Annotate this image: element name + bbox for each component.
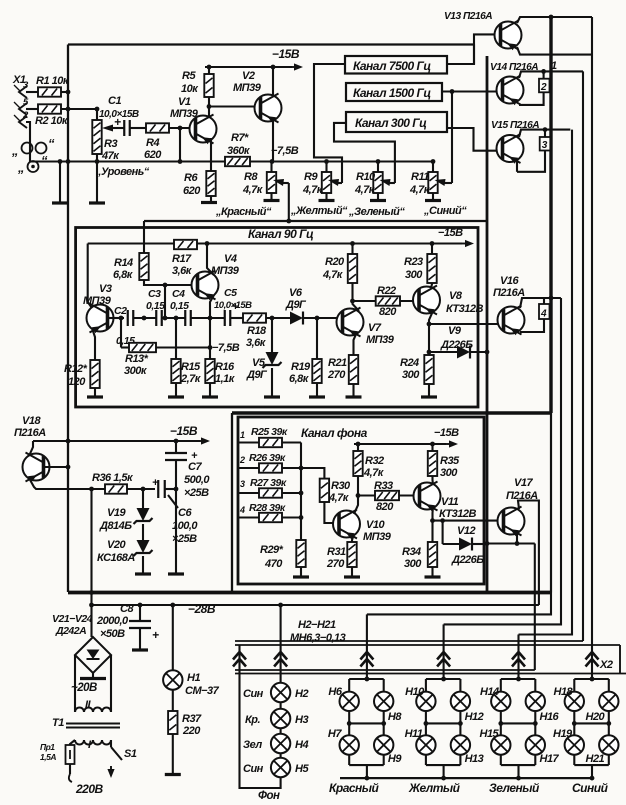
wire fon return loop [240,645,281,788]
wire R15 ground [175,383,177,396]
svg-text:Н4: Н4 [295,739,308,751]
svg-text:V21−V24: V21−V24 [52,613,93,625]
pin 4 box [543,298,545,304]
ground [168,395,184,398]
svg-text:V2: V2 [242,70,255,82]
svg-text:V3: V3 [99,283,112,295]
transistor V7 [337,308,364,338]
connector chevron Желтый [437,652,450,660]
-28V rail [92,604,539,606]
svg-text:Пр1: Пр1 [40,742,55,752]
lamp Н18 [565,692,584,711]
wire C7 down to ground [175,460,177,573]
wire R24 ground [428,384,430,396]
ground [264,395,280,398]
svg-text:620: 620 [144,149,162,161]
svg-text:МП39: МП39 [170,108,199,120]
connector chevron Зеленый [512,652,525,660]
svg-text:П216А: П216А [493,287,525,299]
svg-text:−15В: −15В [170,424,198,438]
wire pin2 to V14 collector [519,92,544,105]
wire left rail x68 [67,45,69,593]
resistor R1 [38,87,61,96]
lamp H2 [271,683,290,702]
svg-text:1: 1 [240,430,245,440]
wire R14 to V4 base [144,280,198,285]
wire -28V branch y543.5 [487,542,535,544]
lamp Н14 [491,692,510,711]
resistor R4 [146,123,169,132]
wire V11 emitter [431,506,434,544]
wire R4 to V1 base [169,127,196,129]
svg-text:300к: 300к [124,365,148,377]
resistor R31 [347,542,356,567]
capacitor C8 [139,605,141,620]
svg-text:V13 П216А: V13 П216А [444,11,492,22]
svg-text:Н17: Н17 [540,753,560,765]
wire R29 ground [300,567,302,576]
wire V8 emitter [429,311,433,356]
svg-text:V4: V4 [224,253,237,265]
ground [168,572,184,575]
svg-text:47к: 47к [101,150,120,162]
wire R10 wiper to channel 300 input [334,123,395,183]
svg-text:−15В: −15В [438,227,463,239]
svg-text:R35: R35 [440,455,460,467]
wire V17 emitter to -28V rail [518,501,539,606]
wire bridge to ground [92,673,94,677]
wire vertical x232 [231,413,233,592]
transistor V18 mirrored [23,453,50,483]
wire V1 base node down to bus [179,128,181,162]
resistor R34 [428,542,437,567]
svg-text:Н1: Н1 [187,672,200,684]
svg-text:820: 820 [379,306,397,318]
svg-text:Кр.: Кр. [245,714,260,726]
svg-text:R5: R5 [182,70,196,82]
wire right vertical x487 [486,56,489,593]
svg-text:Красный: Красный [329,781,380,795]
wire V11 collector [431,476,434,485]
R11 wiper arrow [444,182,453,184]
svg-text:Н20: Н20 [586,711,606,723]
capacitor C6 [157,480,159,498]
connector chevron fon right [274,652,287,660]
svg-text:С8: С8 [120,603,134,615]
wire C2 to C3 [134,317,156,319]
block Канал 300 Гц [346,112,447,132]
bus wire y161.5 right [250,160,433,162]
transistor V15 [497,134,524,164]
resistor R14 series input [139,253,148,280]
switch S1 [110,740,112,747]
lamp Н7 [340,735,359,754]
svg-text:R25 39к: R25 39к [251,426,288,438]
wire V18 emitter node down to -28V rail [90,489,92,637]
svg-text:С2: С2 [114,305,127,317]
svg-text:“: “ [48,136,55,151]
svg-text:Н11: Н11 [405,728,423,740]
transistor V2 [255,94,282,124]
wire C5 to R18 [231,317,243,319]
connector chevron Красный [360,652,373,660]
svg-text:4: 4 [239,505,245,515]
svg-text:R2 10к: R2 10к [35,115,69,127]
capacitor C2 [127,310,129,326]
wire bridge AC left [74,655,76,712]
svg-text:R17: R17 [172,253,192,265]
wire Желтый top node [426,678,461,680]
svg-text:Н8: Н8 [388,711,402,723]
wire V20 ground [142,556,144,573]
wire V3 collector up to rail [88,244,92,309]
lamp Н20 [599,692,618,711]
svg-text:Канал 7500 Гц: Канал 7500 Гц [353,59,431,73]
R8 wiper arrow [282,182,289,184]
svg-text:R14: R14 [114,257,133,269]
lamp Н12 [451,692,470,711]
wire summing node [300,443,302,541]
ground [346,395,362,398]
wire fuse to mains [69,764,71,774]
svg-text:R16: R16 [215,361,235,373]
common lamp return rail [340,777,592,779]
R9 wiper arrow [337,182,342,184]
svg-text:R33: R33 [374,480,393,492]
svg-text:×50В: ×50В [100,628,125,640]
resistor R33 [358,494,375,496]
svg-text:R11: R11 [411,171,429,183]
wire R11 wiper to channel 1500 output wire [451,92,453,184]
svg-text:300: 300 [402,369,420,381]
ground [201,201,217,204]
svg-text:Канал 90 Гц: Канал 90 Гц [248,227,314,241]
wire Зеленый feed [517,635,519,680]
svg-text:„Желтый“: „Желтый“ [290,205,348,217]
wire Красный top node [349,678,384,680]
wire V11 emitter to V17 base [433,520,505,522]
lamp Н9 [374,735,393,754]
svg-text:1,1к: 1,1к [215,373,236,385]
wire C4 to C5 [191,317,224,319]
resistor R20 [351,244,353,255]
svg-text:„Синий“: „Синий“ [423,205,467,217]
svg-text:V9: V9 [448,325,462,337]
wire R8 wiper to channel 90 input [288,183,290,221]
svg-text:220: 220 [182,725,201,737]
svg-text:Н12: Н12 [465,711,484,723]
svg-text:R13*: R13* [125,353,149,365]
wire base node riser to C3-C4 [164,285,166,318]
svg-text:V5: V5 [252,357,266,369]
resistor R19 [312,359,321,383]
svg-text:R15: R15 [181,361,201,373]
microphone input icon [28,161,39,172]
svg-text:П216А: П216А [14,427,46,439]
ground [89,201,105,204]
svg-text:300: 300 [440,467,458,479]
wire output rail x551 lower [550,413,552,593]
wire pin3 to V15 collector [517,151,545,172]
svg-text:V7: V7 [368,322,382,334]
transistor V14 [497,76,524,106]
ground [52,201,68,204]
svg-text:Д9Г: Д9Г [246,369,268,381]
svg-text:КТ312В: КТ312В [439,508,476,520]
-15V rail top [205,66,292,68]
svg-text:270: 270 [326,558,345,570]
block Канал 7500 Гц [345,56,447,74]
wire box 300 output to V15 base [447,128,503,151]
wire bridge AC right [110,655,112,712]
svg-text:Н14: Н14 [480,686,499,698]
svg-text:С5: С5 [224,287,237,299]
svg-text:R27 39к: R27 39к [250,477,287,489]
svg-text:1: 1 [551,60,557,72]
wire V18 emitter [29,478,105,489]
svg-text:3,6к: 3,6к [246,337,267,349]
resistor R32 [353,451,362,476]
capacitor C3 [155,310,157,326]
svg-text:0,15: 0,15 [146,300,165,312]
resistor R13 feedback [120,318,122,348]
fuse [70,740,75,745]
svg-text:V12: V12 [457,525,475,537]
wire fon output down to rail B1 [534,544,536,671]
wire R36 to C6 [127,488,155,490]
svg-text:„Уровень“: „Уровень“ [95,166,150,178]
wire R18 to V6 [266,317,290,319]
svg-text:360к: 360к [227,145,251,157]
svg-text:2: 2 [239,455,245,465]
block Канал 1500 Гц [346,83,442,101]
R3 wiper arrow [112,127,125,129]
resistor R16 [205,359,214,383]
wire output 1 down to bus A1 [582,71,584,641]
svg-text:+: + [152,628,159,642]
lamp Н13 [451,735,470,754]
wire V2 collector to -15V rail [272,67,274,96]
svg-text:R12*: R12* [64,363,88,375]
svg-text:V10: V10 [366,519,385,531]
svg-text:620: 620 [183,185,201,197]
potentiometer R10 [377,162,379,173]
ground [87,395,103,398]
svg-text:„Красный“: „Красный“ [215,206,272,218]
svg-text:„Зеленый“: „Зеленый“ [348,206,405,218]
svg-text:Н5: Н5 [295,763,309,775]
lamp Н11 [416,735,435,754]
svg-text:СМ−37: СМ−37 [185,685,220,697]
wire V3 emitter to R12 [92,328,95,360]
wire V13 collector [517,47,592,55]
svg-text:R7*: R7* [231,132,249,144]
svg-text:6,8к: 6,8к [113,269,134,281]
ground [344,575,360,578]
transistor V16 [498,306,525,336]
svg-text:КТ312В: КТ312В [446,303,483,315]
rail right of R17 [197,242,462,244]
bus rail B2 [235,673,626,675]
resistor R6 [206,171,215,196]
resistor R5 [208,67,210,74]
transformer core [66,723,120,725]
wire R37 ground [172,734,174,773]
svg-text:2,7к: 2,7к [180,373,202,385]
svg-text:V19: V19 [107,507,126,519]
wire Синий top node [574,678,609,680]
svg-text:4,7к: 4,7к [409,184,431,196]
bus wire y161.5 left [30,160,225,162]
wire H1 to R37 [172,690,174,711]
svg-text:V1: V1 [178,96,191,108]
resistor R24 [424,355,433,384]
transistor V11 [414,482,441,512]
lamp H3 [280,702,282,709]
diode V12 [459,538,472,551]
svg-text:−15В: −15В [272,47,300,61]
svg-text:Д814Б: Д814Б [99,520,132,532]
wire V7 collector [353,301,360,311]
wire R12 ground [94,388,96,396]
wire Синий feed [591,678,593,680]
wire V12 branch [442,521,444,544]
ground [165,773,181,776]
svg-text:R32: R32 [365,455,384,467]
-15V rail in channel 90 [88,242,174,244]
wire V4 collector to rail [207,244,214,276]
connector chevron Синий [586,652,599,660]
svg-text:Т1: Т1 [52,717,64,729]
transistor V1 [190,115,217,145]
transistor V3 mirrored [87,304,114,334]
wire C1 to R4 [130,127,146,129]
wire Желтый mid rail [426,722,461,724]
svg-text:R3: R3 [104,138,117,150]
pin 2 box [543,71,545,78]
ground [135,572,151,575]
svg-text:„: „ [17,160,24,175]
potentiometer R9 [325,162,327,173]
capacitor C5 [224,310,226,326]
wire red feed from thick bus [367,593,551,615]
svg-text:V18: V18 [22,415,41,427]
svg-text:Зеленый: Зеленый [489,781,540,795]
svg-text:МП39: МП39 [233,82,262,94]
svg-text:Н9: Н9 [388,753,402,765]
svg-text:2: 2 [540,82,547,93]
wire R33 to V11 base [399,494,420,496]
pin 3 box [544,130,546,137]
wire Синий mid rail [574,722,609,724]
bus rail A1 [235,640,583,642]
capacitor C1 [123,120,125,136]
svg-text:Н6: Н6 [328,686,342,698]
wire fon feed down [280,605,282,683]
wire thick bus y413 [232,411,551,414]
svg-text:3,6к: 3,6к [172,265,193,277]
wire input riser to R14 [143,221,145,253]
svg-text:R37: R37 [182,713,202,725]
svg-text:Синий: Синий [572,781,609,795]
wire C6 to C7 branch [165,488,176,490]
wire V13 emitter rail [517,17,592,23]
svg-text:1,5А: 1,5А [40,752,56,762]
svg-text:R30: R30 [331,480,351,492]
svg-text:220В: 220В [75,782,104,796]
svg-text:С4: С4 [172,288,185,300]
svg-text:R22: R22 [377,285,396,297]
wire V9 to bus [470,351,487,353]
svg-text:Канал фона: Канал фона [301,426,368,440]
svg-text:Канал 1500 Гц: Канал 1500 Гц [353,86,431,100]
resistor R35 [428,451,437,476]
svg-text:R19: R19 [291,361,311,373]
wire R2 to R3 top [61,108,97,110]
wire rail x592 down to blue lamps [591,17,593,679]
svg-text:Н13: Н13 [465,753,484,765]
lamp Н21 [599,735,618,754]
wire V16 emitter output 4 [520,298,561,308]
wire input node down [143,317,145,319]
wire V10 emitter to R31 [352,534,354,542]
potentiometer R11 [432,162,434,173]
resistor R21 [349,355,358,384]
transformer T1 primary I [75,740,111,745]
svg-text:V16: V16 [500,275,519,287]
block Канал фона frame [238,417,484,584]
svg-text:300: 300 [405,269,423,281]
svg-text:R18: R18 [247,325,267,337]
lamp Н8 [374,692,393,711]
svg-text:0,15: 0,15 [170,300,189,312]
svg-text:10к: 10к [181,83,199,95]
transistor V13 [495,21,522,51]
lamp H1 [172,605,174,670]
wire R22 to V8 base [400,300,419,302]
svg-text:Зел: Зел [243,739,262,751]
zener V20 [142,524,144,540]
svg-text:Н16: Н16 [540,711,560,723]
svg-text:R4: R4 [146,137,159,149]
svg-text:Н15: Н15 [480,728,500,740]
resistor R37 [168,711,177,734]
svg-text:V6: V6 [289,287,303,299]
svg-text:R31: R31 [327,546,346,558]
wire R6 to ground [210,196,212,202]
svg-text:С3: С3 [148,288,161,300]
transistor V17 [498,507,525,537]
potentiometer R8 [270,162,272,173]
svg-text:Д9Г: Д9Г [285,299,307,311]
wire R1 to rail [61,91,68,93]
resistor R29 [296,540,305,567]
wire R19 ground [316,383,318,396]
svg-text:V20: V20 [107,539,126,551]
wire R34 ground [431,567,433,576]
transformer T1 secondary II [75,708,111,713]
svg-text:4,7к: 4,7к [302,184,324,196]
lamp Н6 [340,692,359,711]
ground [309,395,325,398]
svg-text:V11: V11 [441,496,459,508]
wire summing to R30 [301,468,324,479]
svg-text:R9: R9 [304,171,318,183]
resistor R12 [90,360,99,388]
svg-text:3: 3 [240,479,245,489]
wire V10 collector [354,496,358,515]
wire V4 emitter down crossing signal line [210,295,214,359]
